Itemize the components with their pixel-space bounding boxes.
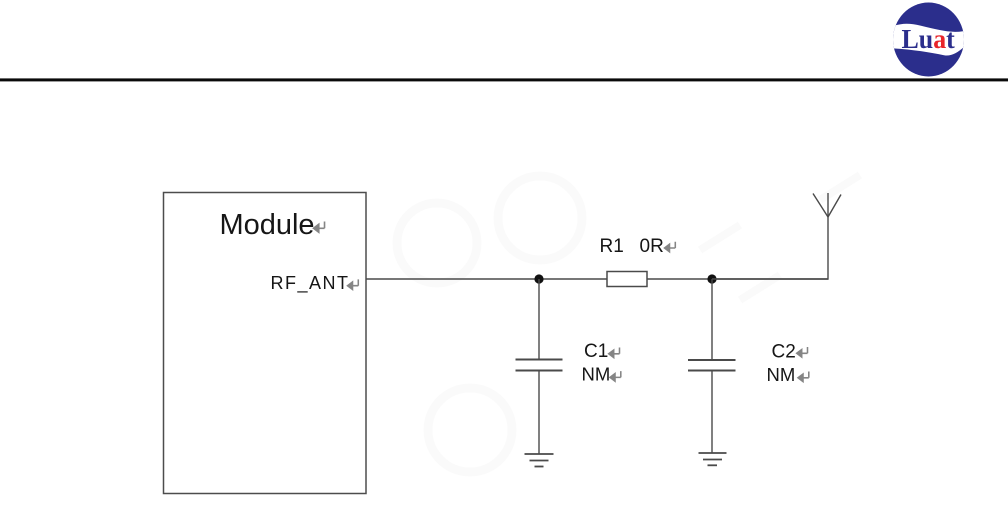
svg-text:C1: C1: [584, 341, 608, 362]
wire junction2 to antenna: [712, 217, 828, 279]
node junction 2: [707, 274, 716, 283]
svg-text:NM: NM: [582, 364, 611, 385]
header rule: [0, 78, 1008, 81]
wire C2 to ground: [711, 371, 713, 454]
label Module: [219, 209, 324, 241]
wire junction1 to C1: [538, 279, 540, 359]
watermark ghost rings: [173, 175, 860, 472]
capacitor C2: [688, 360, 736, 371]
wire RF_ANT net: [366, 278, 828, 280]
svg-text:R1: R1: [600, 236, 624, 257]
svg-text:0R: 0R: [640, 236, 664, 257]
label R1 0R: [600, 236, 676, 257]
svg-text:Luat: Luat: [902, 23, 955, 54]
resistor R1: [607, 272, 647, 287]
label C2 NM: [767, 342, 809, 386]
ground GND2: [699, 453, 727, 465]
node junction 1: [534, 274, 543, 283]
module box U1: [164, 193, 367, 494]
svg-text:Module: Module: [219, 209, 314, 241]
pin label RF_ANT: [270, 273, 358, 294]
svg-text:C2: C2: [772, 342, 796, 363]
antenna ANT1: [813, 193, 841, 217]
svg-text:RF_ANT: RF_ANT: [270, 273, 349, 294]
capacitor C1: [516, 360, 563, 371]
svg-text:NM: NM: [767, 364, 796, 385]
label C1 NM: [582, 341, 621, 385]
ground GND1: [525, 454, 554, 467]
wire junction2 to C2: [711, 279, 713, 360]
wire C1 to ground: [538, 371, 540, 455]
logo Luat: [889, 3, 967, 77]
